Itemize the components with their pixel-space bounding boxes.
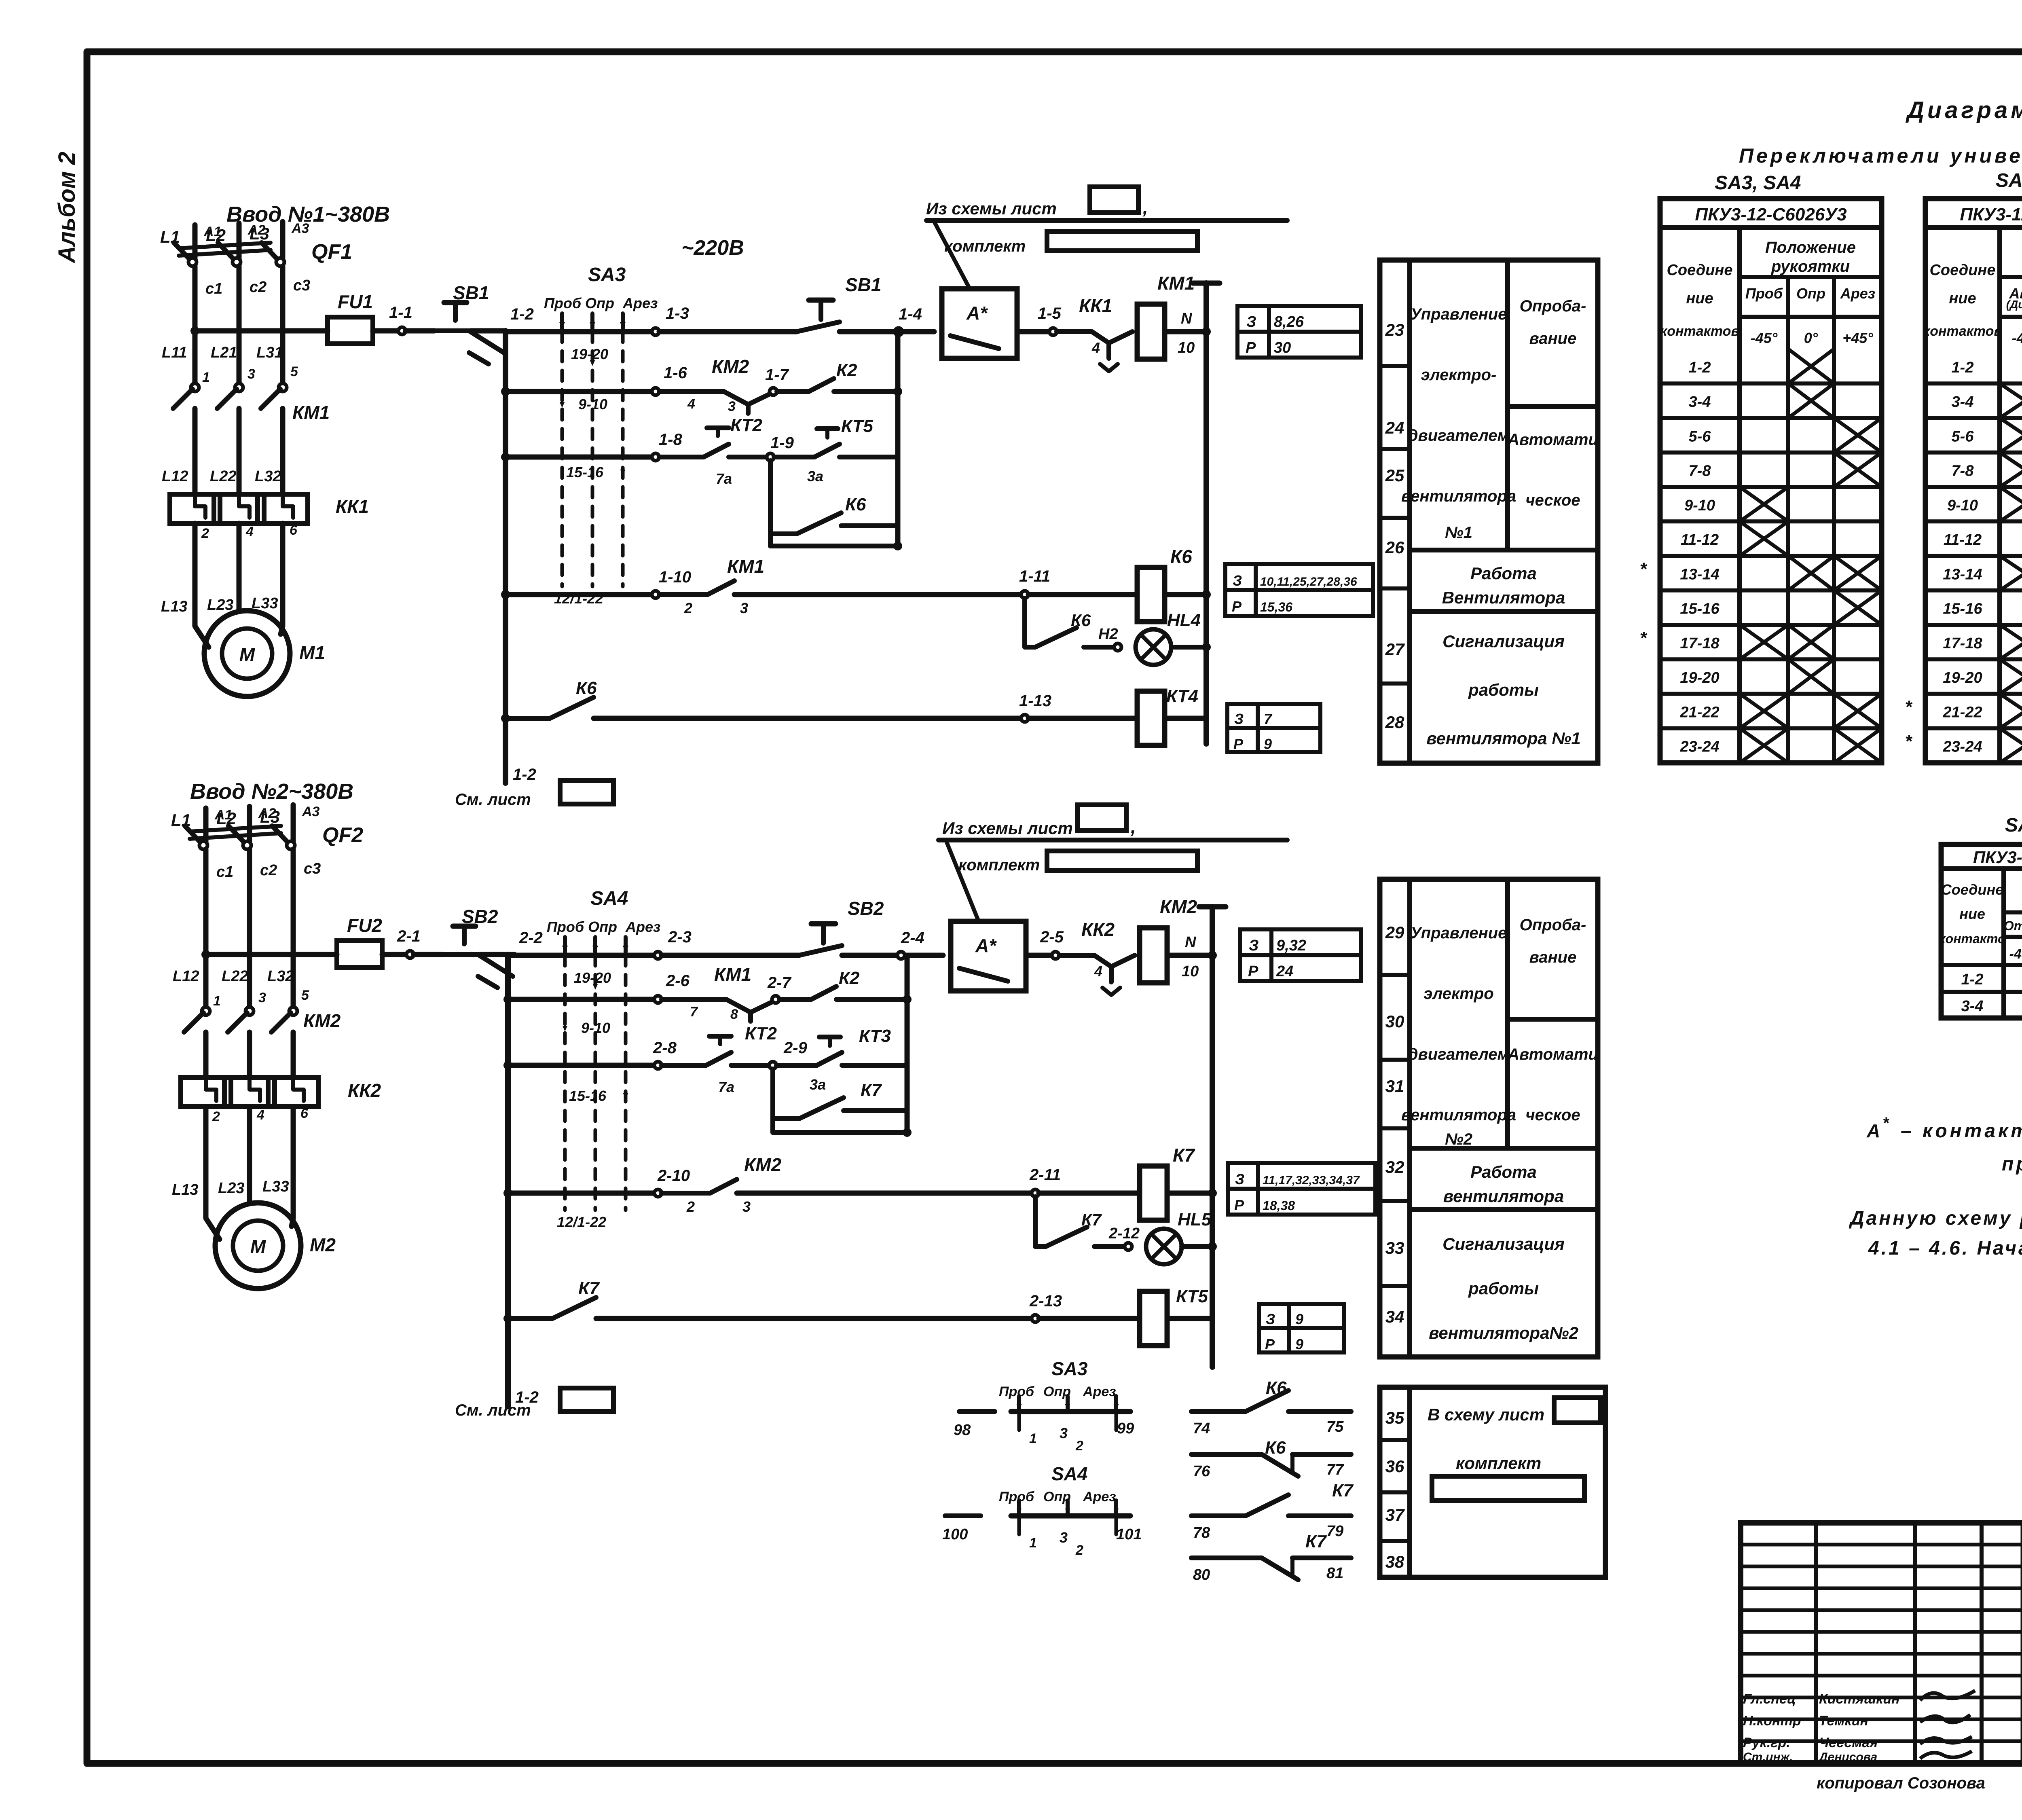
svg-text:FU2: FU2 (347, 915, 382, 936)
svg-text:(Дист): (Дист) (2006, 298, 2022, 311)
svg-text:вентилятора: вентилятора (1443, 1187, 1564, 1206)
svg-text:77: 77 (1326, 1461, 1344, 1478)
svg-text:Проб: Проб (547, 918, 585, 935)
svg-text:4: 4 (1094, 963, 1102, 980)
svg-text:15-16: 15-16 (1943, 601, 1982, 618)
svg-text:См. лист: См. лист (455, 1401, 531, 1419)
svg-text:2-9: 2-9 (783, 1039, 808, 1057)
svg-text:2: 2 (201, 526, 209, 541)
svg-text:9,32: 9,32 (1276, 937, 1306, 954)
motor M1 (204, 611, 290, 696)
svg-text:двигателем: двигателем (1408, 1045, 1509, 1063)
parallel branch box with K7 contact (773, 1069, 907, 1132)
svg-text:1-2: 1-2 (1689, 359, 1711, 376)
svg-text:А*: А* (966, 303, 988, 324)
svg-text:25: 25 (1385, 466, 1404, 485)
node 2-3 (654, 952, 662, 959)
svg-text:Р: Р (1246, 339, 1256, 356)
svg-text:QF1: QF1 (311, 240, 352, 264)
svg-text:1-2: 1-2 (1961, 971, 1984, 988)
node 2-5 (1052, 952, 1059, 959)
wire coil to N bus (1165, 329, 1206, 334)
wire 1-4 to 1-5 (1017, 329, 1051, 334)
svg-text:L22: L22 (222, 968, 248, 985)
svg-text:комплект: комплект (958, 856, 1040, 874)
svg-text:11-12: 11-12 (1944, 531, 1982, 548)
svg-text:76: 76 (1193, 1463, 1210, 1480)
svg-text:З: З (1249, 937, 1258, 954)
svg-text:1-11: 1-11 (1019, 567, 1050, 585)
svg-text:Денисова: Денисова (1818, 1750, 1877, 1764)
svg-text:Н.контр: Н.контр (1743, 1713, 1801, 1729)
svg-text:К7: К7 (1332, 1481, 1354, 1500)
svg-text:рукоятки: рукоятки (1771, 258, 1850, 275)
svg-text:10: 10 (1182, 963, 1199, 980)
svg-text:3-4: 3-4 (1952, 394, 1974, 411)
node 2-9 (769, 1062, 776, 1069)
N bus circuit 1 (1202, 327, 1211, 336)
svg-text:Соедине: Соедине (1929, 262, 1995, 279)
svg-text:вание: вание (1529, 330, 1577, 347)
node 2-6 (654, 996, 662, 1003)
control bus wire circuit 2 (505, 954, 511, 1407)
node 2-13 (1032, 1315, 1039, 1322)
svg-text:-45°: -45° (2009, 946, 2022, 962)
svg-text:КМ2: КМ2 (744, 1154, 782, 1175)
svg-text:2-7: 2-7 (767, 974, 792, 992)
svg-text:SB1: SB1 (845, 274, 881, 295)
svg-text:М: М (250, 1236, 266, 1257)
svg-text:2-10: 2-10 (657, 1167, 690, 1185)
svg-text:L12: L12 (162, 468, 188, 485)
svg-text:8: 8 (730, 1007, 738, 1022)
svg-text:Проб: Проб (1745, 285, 1783, 302)
svg-text:3: 3 (258, 990, 266, 1005)
svg-text:А2: А2 (258, 806, 276, 821)
svg-text:ческое: ческое (1525, 491, 1580, 509)
title block frame (1741, 1523, 2022, 1763)
svg-text:78: 78 (1193, 1524, 1210, 1541)
svg-text:К6: К6 (1265, 1438, 1286, 1458)
svg-text:29: 29 (1385, 923, 1404, 942)
svg-text:К7: К7 (861, 1080, 882, 1100)
svg-text:1: 1 (202, 370, 210, 385)
svg-text:12/1-22: 12/1-22 (557, 1214, 606, 1230)
svg-text:КМ2: КМ2 (303, 1010, 341, 1031)
signal branch with K6 contact and lamp HL4 (1025, 598, 1035, 647)
svg-text:Альбом 2: Альбом 2 (54, 152, 80, 264)
svg-text:работы: работы (1468, 1279, 1539, 1298)
svg-text:М2: М2 (310, 1234, 336, 1255)
svg-text:15,36: 15,36 (1260, 600, 1292, 614)
wire 2-3 to SB2 start (662, 953, 799, 958)
svg-text:SB2: SB2 (848, 898, 884, 919)
N bus circuit 2 (1208, 951, 1217, 960)
svg-text:К6: К6 (1071, 611, 1091, 630)
svg-text:двигателем: двигателем (1408, 427, 1509, 444)
svg-text:КМ1: КМ1 (714, 964, 751, 985)
node 2-12 (1125, 1243, 1132, 1250)
svg-text:3: 3 (728, 399, 736, 414)
svg-text:80: 80 (1193, 1566, 1210, 1583)
svg-text:№2: №2 (1445, 1130, 1472, 1148)
svg-text:1-2: 1-2 (513, 766, 536, 783)
svg-text:SA4: SA4 (1051, 1463, 1087, 1484)
wire 2-4 to 2-5 (1026, 953, 1054, 958)
svg-text:Работа: Работа (1470, 1162, 1537, 1181)
svg-text:Рук.гр.: Рук.гр. (1743, 1735, 1790, 1750)
phase L2 lead-in (237, 223, 242, 258)
circuit breaker QF2 (199, 841, 207, 849)
svg-text:ние: ние (1959, 906, 1985, 922)
svg-text:98: 98 (954, 1422, 971, 1439)
svg-text:К7: К7 (1173, 1145, 1195, 1166)
svg-text:SA4: SA4 (590, 888, 628, 909)
svg-text:9-10: 9-10 (581, 1020, 610, 1036)
svg-text:23: 23 (1385, 320, 1404, 339)
svg-text:5-6: 5-6 (1952, 428, 1974, 445)
emergency contact A* box (942, 289, 1017, 358)
svg-text:SA3, SA4: SA3, SA4 (1715, 172, 1801, 194)
svg-text:Р: Р (1265, 1336, 1275, 1352)
svg-text:4: 4 (245, 524, 254, 540)
svg-text:9: 9 (1264, 736, 1272, 752)
svg-text:с1: с1 (216, 863, 233, 880)
svg-text:Вентилятора: Вентилятора (1442, 588, 1565, 607)
svg-text:Управление: Управление (1411, 305, 1507, 323)
svg-text:2-3: 2-3 (668, 928, 692, 946)
svg-text:К7: К7 (1081, 1210, 1102, 1229)
svg-text:81: 81 (1326, 1565, 1343, 1582)
motor M2 (215, 1203, 301, 1289)
mid bus circuit 1 (893, 387, 902, 396)
phase L3 lead-in (2) (291, 805, 296, 841)
wire to node 1-4 (840, 329, 934, 334)
svg-text:FU1: FU1 (338, 291, 373, 312)
svg-text:ПКУ3-12-А0108У3: ПКУ3-12-А0108У3 (1973, 848, 2022, 867)
svg-text:N: N (1181, 310, 1193, 327)
svg-text:6: 6 (300, 1106, 309, 1121)
svg-text:1-8: 1-8 (659, 431, 683, 449)
svg-text:101: 101 (1116, 1526, 1142, 1543)
svg-text:24: 24 (1385, 418, 1404, 437)
svg-text:2-11: 2-11 (1029, 1166, 1061, 1184)
mid bus circuit 2 (903, 995, 912, 1004)
svg-text:Р: Р (1233, 736, 1244, 752)
svg-text:Арез: Арез (1083, 1384, 1116, 1399)
svg-text:5-6: 5-6 (1689, 428, 1711, 445)
svg-text:Положение: Положение (1765, 239, 1856, 256)
svg-text:Кистяшкин: Кистяшкин (1819, 1691, 1900, 1707)
svg-text:15-16: 15-16 (566, 464, 604, 480)
svg-text:79: 79 (1326, 1523, 1343, 1540)
svg-text:L21: L21 (211, 344, 237, 361)
main contacts KM2 (202, 1007, 210, 1015)
svg-text:З: З (1234, 711, 1244, 727)
rung 5' wire (503, 1314, 512, 1323)
svg-text:К2: К2 (836, 360, 857, 380)
auxiliary contact K6 in branch (770, 531, 797, 536)
svg-text:Р: Р (1234, 1197, 1244, 1213)
svg-text:Арез: Арез (1840, 285, 1875, 302)
svg-text:21-22: 21-22 (1942, 704, 1982, 721)
svg-text:2-5: 2-5 (1040, 928, 1064, 946)
svg-text:Опр: Опр (585, 295, 614, 311)
svg-text:~220В: ~220В (681, 236, 744, 260)
svg-text:Сигнализация: Сигнализация (1442, 632, 1565, 651)
thermal relay heaters KK1 (170, 494, 220, 523)
svg-text:КТ2: КТ2 (745, 1024, 777, 1043)
svg-text:с3: с3 (293, 277, 310, 294)
svg-text:З: З (1266, 1311, 1275, 1327)
svg-text:,: , (1130, 816, 1136, 837)
svg-text:L32: L32 (255, 468, 281, 485)
svg-text:А3: А3 (291, 221, 309, 236)
svg-text:9-10: 9-10 (1947, 497, 1978, 514)
svg-text:КТ4: КТ4 (1166, 686, 1198, 706)
svg-text:38: 38 (1385, 1552, 1404, 1571)
svg-text:А2: А2 (247, 222, 266, 238)
svg-text:1-2: 1-2 (510, 305, 534, 323)
svg-text:А3: А3 (302, 804, 320, 819)
cross-reference table for K7 (1228, 1163, 1375, 1215)
svg-text:контактов: контактов (1660, 324, 1739, 339)
rung 2' wire (503, 995, 512, 1004)
cross-reference table for KM1 (1237, 306, 1361, 358)
svg-text:Откл: Откл (2004, 918, 2022, 933)
svg-text:2-8: 2-8 (653, 1039, 677, 1057)
svg-text:3: 3 (1060, 1529, 1068, 1546)
svg-text:Р: Р (1248, 963, 1258, 980)
svg-text:1-9: 1-9 (770, 434, 794, 452)
svg-text:33: 33 (1385, 1238, 1404, 1257)
svg-text:копировал Созонова: копировал Созонова (1817, 1774, 1985, 1792)
svg-text:32: 32 (1385, 1158, 1404, 1177)
svg-text:З: З (1233, 572, 1242, 589)
svg-text:36: 36 (1385, 1457, 1404, 1476)
bus tap of control feed 2 (201, 950, 210, 959)
svg-text:З: З (1246, 313, 1256, 330)
svg-text:КМ1: КМ1 (1157, 273, 1195, 294)
svg-text:контактов: контактов (1923, 324, 2002, 339)
svg-text:9: 9 (1295, 1336, 1303, 1352)
svg-text:вание: вание (1529, 948, 1577, 966)
svg-text:2-12: 2-12 (1108, 1225, 1140, 1242)
svg-text:L13: L13 (161, 598, 187, 615)
svg-text:Сигнализация: Сигнализация (1442, 1234, 1565, 1253)
svg-text:Арез: Арез (1083, 1489, 1116, 1505)
svg-text:23-24: 23-24 (1942, 739, 1982, 756)
svg-text:3-4: 3-4 (1689, 394, 1711, 411)
svg-text:2-4: 2-4 (901, 929, 924, 947)
svg-text:КК2: КК2 (1081, 919, 1115, 940)
svg-text:2-1: 2-1 (397, 927, 421, 945)
svg-text:27: 27 (1385, 640, 1405, 659)
svg-text:QF2: QF2 (322, 823, 363, 847)
svg-text:8,26: 8,26 (1274, 313, 1304, 330)
svg-text:6: 6 (290, 523, 298, 538)
svg-text:74: 74 (1193, 1420, 1210, 1437)
title block signature grid (1738, 1523, 1743, 1763)
svg-text:Из схемы лист: Из схемы лист (942, 819, 1073, 838)
svg-text:*: * (1905, 732, 1912, 751)
svg-text:3а: 3а (807, 468, 823, 485)
node 1-4 (895, 328, 902, 335)
svg-text:34: 34 (1385, 1307, 1404, 1326)
svg-text:при аварии (например: при: при аварии (например: при пожаре) (2002, 1153, 2022, 1175)
svg-text:17-18: 17-18 (1943, 635, 1982, 652)
sheet continuation marker circuit 2 (505, 1393, 511, 1407)
svg-text:Автомати: Автомати (1507, 431, 1598, 449)
svg-text:L33: L33 (262, 1178, 289, 1195)
node 2-11 (1032, 1189, 1039, 1197)
fuse FU1 (328, 317, 373, 344)
svg-text:Р: Р (1232, 598, 1242, 615)
svg-text:3: 3 (1060, 1425, 1068, 1441)
svg-text:Проб: Проб (999, 1384, 1034, 1399)
node 2-8 (654, 1062, 662, 1069)
svg-text:К7: К7 (1305, 1532, 1327, 1551)
svg-text:Чеесмая: Чеесмая (1819, 1735, 1878, 1750)
svg-text:КМ2: КМ2 (1160, 896, 1197, 917)
svg-text:1-4: 1-4 (899, 305, 922, 323)
svg-text:работы: работы (1468, 680, 1539, 699)
node 2-10 (654, 1189, 662, 1197)
svg-text:КТ3: КТ3 (859, 1026, 891, 1046)
svg-text:-45°: -45° (2012, 330, 2022, 346)
svg-text:Соедине: Соедине (1667, 262, 1732, 279)
svg-text:электро-: электро- (1421, 366, 1497, 384)
svg-text:4.1 – 4.6. Начало.: 4.1 – 4.6. Начало. (1868, 1238, 2022, 1259)
svg-text:10,11,25,27,28,36: 10,11,25,27,28,36 (1260, 575, 1357, 588)
svg-text:99: 99 (1117, 1420, 1134, 1437)
bus tap of control feed 1 (190, 326, 199, 335)
svg-text:19-20: 19-20 (1680, 669, 1719, 686)
svg-text:– контакт аварийного отключ: – контакт аварийного отключения, разомкн… (1901, 1120, 2022, 1142)
function table lines 29-34 (1380, 879, 1598, 1357)
svg-text:7-8: 7-8 (1952, 463, 1974, 480)
svg-text:10: 10 (1178, 339, 1195, 356)
svg-text:с2: с2 (250, 279, 266, 296)
svg-text:К2: К2 (839, 968, 860, 988)
svg-text:3-4: 3-4 (1961, 998, 1984, 1015)
svg-text:КМ2: КМ2 (712, 356, 749, 377)
svg-text:КК2: КК2 (348, 1080, 381, 1101)
svg-text:1: 1 (1029, 1431, 1037, 1446)
svg-text:А1: А1 (214, 807, 232, 823)
emergency contact A* box (2) (951, 921, 1026, 991)
svg-text:Управление: Управление (1411, 924, 1507, 942)
svg-text:Арез: Арез (622, 295, 658, 311)
svg-text:М: М (239, 644, 256, 665)
phase L3 lead-in (280, 222, 286, 258)
rung 3' wire (503, 1061, 512, 1070)
svg-text:КК1: КК1 (1079, 295, 1112, 316)
svg-text:с1: с1 (205, 280, 222, 297)
rung 4 wire (501, 590, 510, 599)
svg-text:30: 30 (1274, 339, 1291, 356)
svg-text:L22: L22 (210, 468, 236, 485)
node 1-7 (770, 388, 777, 395)
wire rung1 to SA3 (505, 329, 654, 334)
svg-text:А: А (1866, 1120, 1880, 1141)
auxiliary contact K7 in branch (773, 1116, 799, 1121)
svg-text:4: 4 (687, 396, 695, 412)
svg-text:КК1: КК1 (336, 496, 369, 517)
wire 1-3 to SB1 start (659, 329, 797, 334)
svg-text:15-16: 15-16 (1680, 601, 1720, 618)
svg-text:ПКУ3-12-С6026У3: ПКУ3-12-С6026У3 (1695, 205, 1846, 224)
svg-text:КМ1: КМ1 (292, 402, 330, 423)
svg-text:*: * (1905, 697, 1912, 717)
node 1-5 (1049, 328, 1057, 335)
svg-text:2: 2 (1075, 1438, 1083, 1454)
svg-text:Опр: Опр (1796, 285, 1825, 302)
svg-text:3: 3 (740, 600, 748, 616)
svg-text:1-10: 1-10 (659, 568, 691, 586)
cross-reference table for K6 (1225, 564, 1373, 616)
svg-text:вентилятора: вентилятора (1401, 1106, 1516, 1124)
thermal relay heaters KK2 (181, 1077, 231, 1107)
svg-text:15-16: 15-16 (569, 1088, 607, 1104)
wire rung1' to SA4 (508, 953, 656, 958)
svg-text:Гл.спец: Гл.спец (1743, 1691, 1796, 1707)
svg-text:17-18: 17-18 (1680, 635, 1720, 652)
svg-text:электро: электро (1423, 985, 1493, 1003)
svg-text:HL4: HL4 (1167, 610, 1201, 630)
svg-text:1-1: 1-1 (389, 304, 412, 322)
svg-text:Опроба-: Опроба- (1520, 297, 1586, 315)
cross-reference table for KM2 (1240, 929, 1361, 981)
cross-reference table for KT4 (1227, 704, 1320, 752)
svg-text:7-8: 7-8 (1689, 463, 1711, 480)
svg-text:Проб: Проб (999, 1489, 1034, 1505)
phase L2 lead-in (2) (247, 806, 252, 841)
svg-text:1-6: 1-6 (664, 364, 687, 382)
function table lines 35-38 (1380, 1387, 1605, 1577)
svg-text:2: 2 (1075, 1543, 1083, 1558)
svg-text:3а: 3а (810, 1076, 826, 1093)
svg-text:21-22: 21-22 (1679, 704, 1719, 721)
cross-reference table for KT5 (1259, 1304, 1344, 1352)
svg-text:3: 3 (247, 366, 255, 382)
svg-text:*: * (1639, 628, 1647, 648)
wire to node 2-11 (737, 1191, 1034, 1196)
sheet continuation marker circuit 1 (503, 770, 508, 783)
node 2-7 (772, 996, 779, 1003)
svg-text:N: N (1185, 934, 1197, 951)
wire to node 2-4 (842, 953, 943, 958)
svg-text:1-13: 1-13 (1019, 692, 1051, 710)
svg-text:23-24: 23-24 (1679, 739, 1719, 756)
svg-text:КТ5: КТ5 (1176, 1287, 1208, 1306)
svg-text:SA3: SA3 (588, 264, 626, 286)
svg-text:2: 2 (212, 1109, 220, 1124)
svg-text:К6: К6 (845, 495, 866, 514)
svg-text:1-2: 1-2 (1952, 359, 1974, 376)
svg-text:L31: L31 (256, 344, 283, 361)
svg-text:26: 26 (1385, 538, 1404, 557)
node 1-8 (652, 453, 659, 461)
svg-text:К6: К6 (1170, 546, 1192, 567)
svg-text:100: 100 (942, 1526, 968, 1543)
contact closure table SA1 (1925, 199, 2022, 763)
svg-text:1-3: 1-3 (666, 305, 689, 322)
contact closure table SA3 SA4 (1660, 199, 1882, 763)
wire to node 1-11 (734, 592, 1023, 597)
svg-text:L32: L32 (267, 968, 294, 985)
svg-text:2: 2 (686, 1198, 695, 1215)
